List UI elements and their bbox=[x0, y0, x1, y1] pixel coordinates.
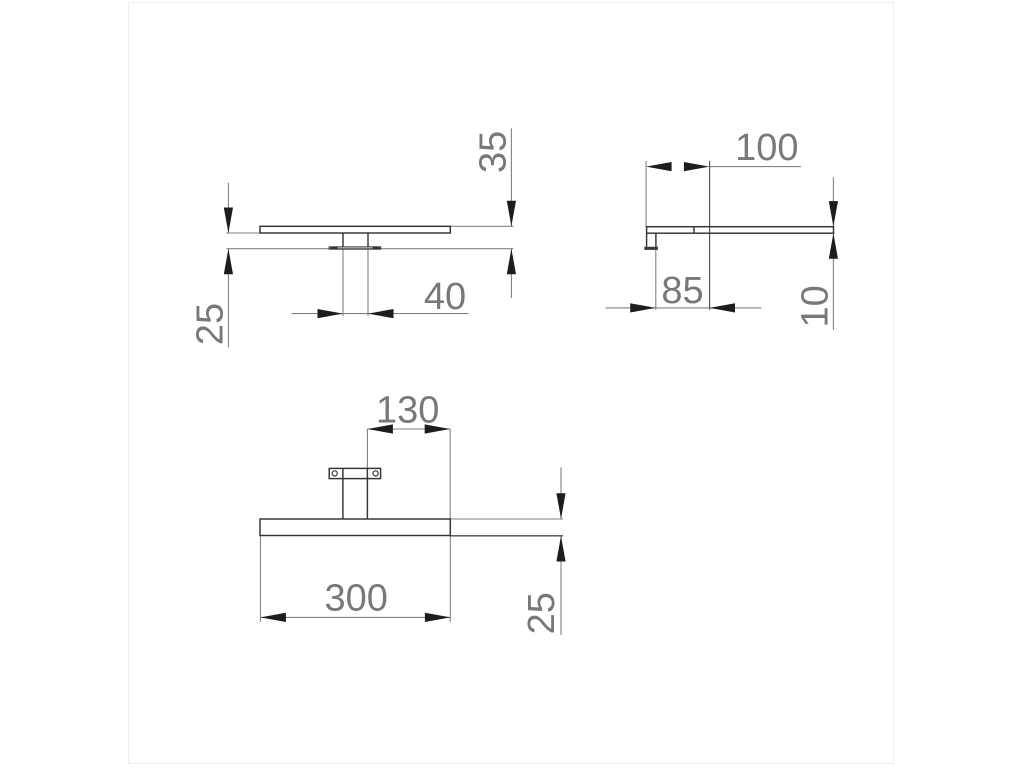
svg-text:85: 85 bbox=[661, 270, 703, 312]
svg-text:35: 35 bbox=[473, 131, 515, 173]
svg-text:10: 10 bbox=[794, 285, 836, 327]
svg-text:130: 130 bbox=[376, 389, 439, 431]
svg-text:25: 25 bbox=[190, 303, 232, 345]
svg-text:100: 100 bbox=[735, 127, 798, 169]
svg-text:25: 25 bbox=[521, 592, 563, 634]
svg-text:40: 40 bbox=[424, 276, 466, 318]
svg-text:300: 300 bbox=[324, 577, 387, 619]
